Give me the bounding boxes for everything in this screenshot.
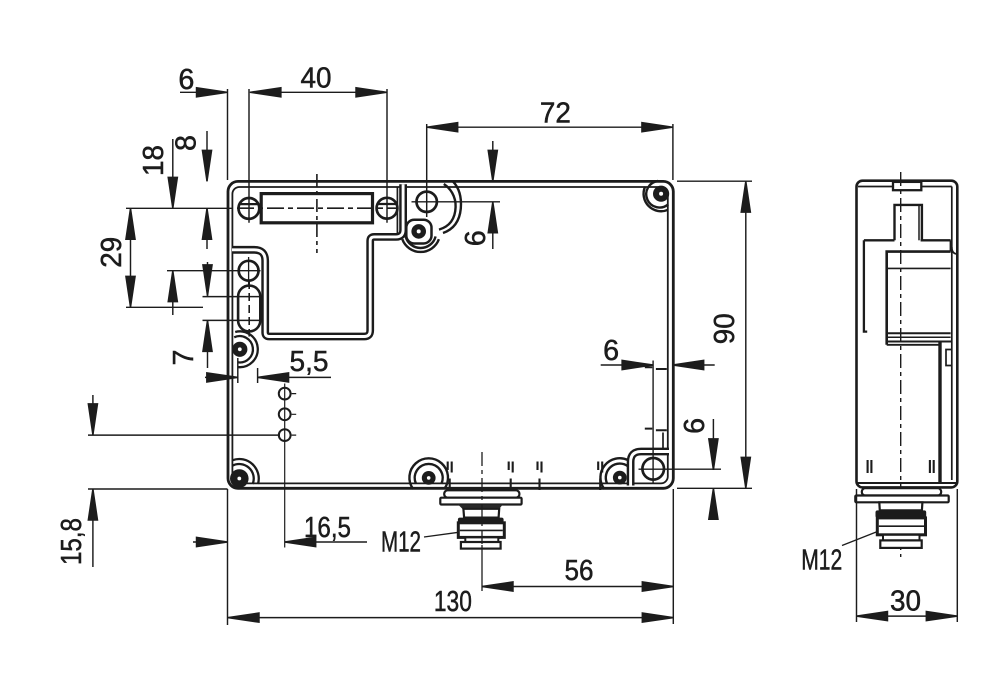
LED center dashes — [292, 394, 297, 436]
svg-text:40: 40 — [301, 62, 332, 94]
extension hole horizontal — [412, 201, 501, 203]
side centerline — [900, 172, 902, 557]
bottom-right corner hole — [642, 458, 664, 480]
magnet block — [887, 252, 951, 345]
extension body left edge top — [227, 89, 229, 180]
side outer outline — [857, 181, 958, 488]
gasket plate — [862, 488, 941, 495]
svg-text:M12: M12 — [801, 545, 842, 577]
M12 leader side — [842, 532, 878, 546]
extension LED3 line — [88, 434, 280, 436]
svg-text:15,8: 15,8 — [56, 518, 88, 565]
head lug pocket — [406, 220, 431, 244]
svg-text:56: 56 — [565, 555, 594, 587]
bottom-right hole pocket wall (double line) — [631, 452, 669, 486]
body inner wall line — [232, 187, 667, 483]
M12 centerline — [481, 452, 483, 545]
svg-text:16,5: 16,5 — [304, 512, 351, 544]
svg-text:6: 6 — [603, 335, 619, 367]
slot vertical centerline — [316, 174, 318, 253]
head screw right — [377, 198, 398, 219]
extension oval arc centers — [203, 297, 262, 321]
flange plate — [855, 496, 948, 503]
dim 7 — [207, 262, 209, 368]
dim 5,5 — [205, 376, 331, 378]
right wall hook — [952, 247, 958, 254]
left slot hole (stadium) — [238, 286, 260, 332]
side inner bottom line — [858, 482, 957, 484]
bottom dome right arcs — [606, 464, 628, 484]
dim 15,8 — [92, 395, 94, 567]
dim 6 top (vertical) — [492, 141, 494, 249]
bottom-left corner lug arcs — [232, 464, 254, 484]
dim 16,5 — [193, 541, 367, 543]
extension top-right / bottom-right — [677, 181, 752, 488]
groove — [465, 537, 498, 542]
end cap — [461, 542, 501, 549]
top-right corner lug dot — [653, 186, 669, 202]
extension body left edge bottom — [227, 489, 229, 625]
svg-text:30: 30 — [890, 586, 921, 618]
groove — [883, 535, 920, 541]
extension hole centerline — [167, 270, 261, 272]
neck — [463, 509, 499, 518]
head bottom lug dot — [232, 342, 247, 357]
dim 90 — [745, 181, 747, 488]
head lug bottom arcs — [406, 236, 436, 248]
chamfer band — [458, 518, 504, 523]
svg-text:8: 8 — [171, 135, 203, 151]
bottom edge tick marks — [448, 462, 603, 491]
compartment short line — [662, 433, 664, 450]
head screw left — [239, 198, 260, 219]
right wall notch — [946, 350, 952, 366]
actuator slot rectangle — [261, 194, 372, 223]
left internal wall — [864, 240, 867, 331]
M12 leader — [424, 532, 459, 537]
dim 40 — [250, 91, 387, 93]
dim 8 — [206, 131, 208, 249]
side bottom ticks — [868, 460, 934, 473]
bottom dome left arcs — [415, 464, 443, 484]
left hole — [239, 261, 259, 281]
svg-text:7: 7 — [168, 350, 200, 366]
SIDE VIEW — [842, 172, 958, 557]
slot horizontal centerline — [237, 207, 397, 209]
dim 18 — [172, 139, 174, 315]
dim 6 bottom-right vertical — [712, 419, 714, 512]
extension screw centerlines — [249, 89, 387, 223]
dim 6 bottom-right horizontal — [601, 364, 715, 366]
LED hole 2 — [279, 408, 291, 420]
barrel — [458, 523, 504, 538]
head pocket wall (double line) — [232, 184, 403, 336]
barrel — [877, 518, 925, 535]
end cap — [880, 540, 921, 548]
extension hole right horizontal — [639, 468, 722, 470]
svg-text:90: 90 — [709, 313, 741, 344]
dim 30 side — [857, 615, 958, 617]
M12 connector front — [424, 452, 522, 591]
dim 6 top-left — [180, 91, 228, 93]
flange plate — [440, 498, 521, 505]
svg-text:6: 6 — [679, 418, 711, 434]
svg-text:5,5: 5,5 — [290, 346, 329, 378]
magnet block bottom lines — [887, 332, 951, 334]
extension side walls bottom — [857, 489, 958, 622]
extension bottom edge left — [88, 488, 228, 490]
bottom dome left dot — [422, 471, 436, 485]
extension body right edge bottom — [672, 489, 674, 624]
FRONT VIEW — [228, 174, 673, 591]
head lug screw dot — [411, 224, 426, 239]
side top notch — [893, 182, 921, 190]
head wall third line — [396, 187, 398, 234]
dim 130 — [228, 617, 673, 619]
svg-text:6: 6 — [460, 230, 492, 246]
column shoulder lines — [864, 239, 951, 241]
side inner right wall — [951, 187, 953, 481]
svg-text:6: 6 — [178, 64, 194, 96]
body outer outline — [228, 181, 673, 488]
extension hole top / right edge top — [427, 124, 673, 217]
top-right corner lug arcs — [646, 181, 668, 208]
dim 72 — [427, 126, 673, 128]
head bottom lug arcs — [234, 336, 253, 362]
chamfer band — [876, 510, 927, 517]
svg-text:72: 72 — [540, 97, 571, 129]
LED hole 3 — [279, 429, 291, 441]
dim 29 — [130, 208, 132, 307]
svg-text:M12: M12 — [381, 527, 421, 559]
DIMENSIONS — [88, 88, 957, 625]
svg-text:18: 18 — [138, 145, 170, 176]
dim 56 — [482, 586, 673, 588]
side inner top line — [858, 186, 952, 188]
LED centerline vertical — [284, 384, 286, 548]
svg-text:29: 29 — [96, 237, 128, 268]
neck — [879, 502, 922, 510]
shoulder — [458, 505, 503, 509]
head lug boss arcs right of hole — [439, 184, 456, 230]
DIMENSION TEXT — [56, 62, 921, 618]
inner partition line right — [652, 361, 654, 485]
gasket plate — [444, 490, 519, 497]
bottom dome right dot — [613, 471, 627, 485]
svg-text:130: 130 — [434, 586, 472, 618]
extension slot centerline left — [126, 207, 232, 209]
extension oval center — [126, 306, 203, 308]
right internal thick line — [938, 342, 941, 484]
top mounting hole — [417, 192, 437, 212]
bottom-left corner lug dot — [230, 469, 249, 488]
LED hole 1 — [279, 388, 291, 400]
actuator column — [895, 205, 922, 240]
